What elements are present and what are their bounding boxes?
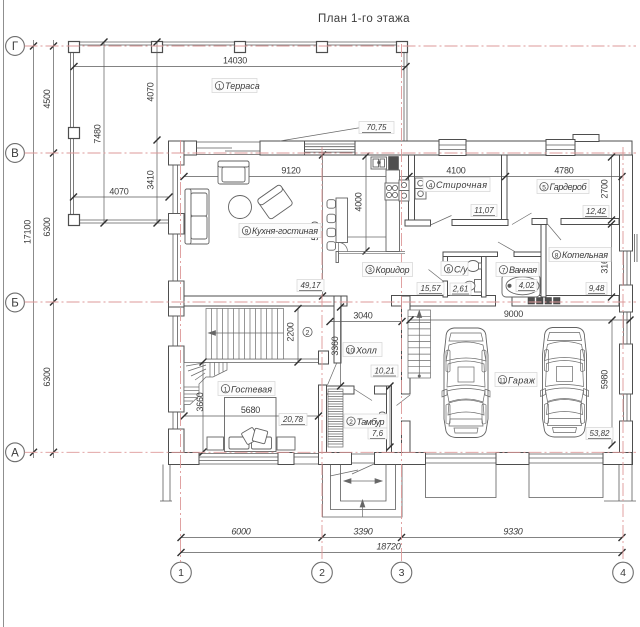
svg-text:Холл: Холл — [355, 346, 377, 356]
area 53.82 — [586, 428, 613, 440]
wall boiler west — [541, 225, 546, 298]
label Терраса — [212, 79, 260, 93]
svg-text:10: 10 — [347, 347, 355, 354]
area 20.78 — [279, 414, 307, 426]
svg-text:Тамбур: Тамбур — [357, 417, 385, 427]
dim 3360 hall west — [330, 304, 344, 390]
svg-text:Гараж: Гараж — [508, 376, 536, 386]
svg-text:9120: 9120 — [281, 166, 300, 176]
svg-text:7,6: 7,6 — [372, 429, 384, 438]
bath tub — [502, 275, 540, 298]
exterior left wall segments — [169, 141, 185, 165]
guest room top furniture line — [228, 398, 393, 400]
wall guest north (under stair) — [206, 359, 319, 363]
porch nested steps — [323, 465, 403, 518]
svg-text:Б: Б — [11, 298, 19, 310]
terrace dim 7480 — [93, 39, 108, 227]
terrace bottom wall — [70, 220, 169, 223]
left wall foot pier — [160, 465, 172, 502]
svg-text:12,42: 12,42 — [586, 207, 607, 216]
wc toilet — [464, 280, 482, 293]
garage door 2 opening — [529, 454, 603, 463]
window living west 2 — [169, 234, 185, 281]
svg-text:1: 1 — [178, 567, 184, 579]
dim 2500 tambour — [378, 383, 394, 451]
axis circle Б — [6, 293, 25, 312]
kitchen island — [336, 198, 348, 243]
area 70.75 — [359, 122, 394, 134]
svg-text:20,78: 20,78 — [282, 415, 304, 424]
left page edge line — [3, 0, 5, 627]
label Ванная — [496, 263, 539, 277]
axis circle В — [6, 144, 25, 163]
stair tag circle 2 — [303, 327, 312, 336]
window guest south 2 — [294, 454, 319, 465]
svg-text:3660: 3660 — [195, 392, 205, 411]
svg-text:Коридор: Коридор — [376, 265, 410, 275]
svg-text:Котельная: Котельная — [562, 250, 608, 260]
window guest south — [199, 454, 278, 465]
terrace dim 4070 / 3410 vertical — [146, 39, 161, 227]
dim 5980 kitchen — [310, 152, 326, 300]
svg-text:3040: 3040 — [353, 311, 372, 321]
area 9.48 — [586, 283, 607, 295]
svg-text:Стирочная: Стирочная — [436, 180, 487, 190]
entry door leaf — [352, 464, 374, 474]
area 49.17 — [297, 280, 324, 292]
sofa living room — [185, 189, 209, 244]
window living west 1 — [169, 165, 185, 214]
left total dim line (17100) — [23, 40, 38, 458]
red axis line 4 — [622, 147, 624, 562]
terrace sliding door opening — [197, 142, 261, 155]
car 2 — [541, 328, 589, 438]
red axis line 3 — [401, 44, 403, 562]
svg-text:4000: 4000 — [354, 192, 364, 211]
laundry washers — [415, 178, 426, 199]
wall tambour west (guest east) — [319, 385, 327, 453]
svg-text:План 1-го этажа: План 1-го этажа — [318, 13, 410, 25]
axis circle 1 — [171, 562, 192, 583]
svg-text:9000: 9000 — [504, 309, 523, 319]
svg-text:7480: 7480 — [93, 124, 103, 143]
label Тамбур — [344, 414, 387, 428]
tambour closet hatch — [328, 389, 343, 447]
label Гостевая — [218, 382, 275, 396]
interior dim line 9120/4100/4780 — [181, 166, 626, 181]
svg-text:7: 7 — [502, 267, 506, 274]
garage door to house opening — [402, 394, 410, 421]
svg-text:2700: 2700 — [600, 179, 610, 198]
svg-text:3390: 3390 — [353, 527, 372, 537]
svg-text:3: 3 — [399, 567, 405, 579]
boiler door leaf — [548, 224, 562, 240]
label С/у — [441, 262, 468, 276]
dim 9000 garage — [407, 309, 634, 324]
axis circle А — [6, 443, 25, 462]
svg-text:4,02: 4,02 — [519, 281, 535, 290]
bath door leaf — [498, 242, 516, 252]
dim 3160 boiler — [600, 221, 616, 301]
svg-text:1: 1 — [224, 386, 228, 393]
svg-text:Терраса: Терраса — [225, 81, 260, 91]
kitchen counter right — [386, 170, 400, 252]
window garage right lower — [620, 394, 633, 421]
island leg — [336, 252, 339, 263]
svg-text:Г: Г — [12, 41, 19, 53]
svg-text:4070: 4070 — [109, 187, 128, 197]
svg-text:53,82: 53,82 — [589, 429, 610, 438]
garage shelf squares — [528, 298, 535, 305]
garage west door leaf — [397, 395, 411, 406]
guest bed cushions and nightstands — [207, 427, 295, 450]
label Гардероб — [537, 180, 589, 194]
exterior top wall segments — [169, 141, 197, 155]
svg-text:18720: 18720 — [376, 542, 400, 552]
red axis line В — [25, 152, 637, 154]
svg-text:4780: 4780 — [554, 166, 573, 176]
svg-text:Гостевая: Гостевая — [231, 385, 272, 395]
svg-text:15,57: 15,57 — [420, 284, 441, 293]
porch arrows — [344, 479, 382, 517]
winder steps — [184, 363, 227, 405]
svg-text:17100: 17100 — [23, 220, 33, 244]
red axis line 1 — [180, 140, 182, 562]
svg-text:9: 9 — [245, 228, 249, 235]
svg-text:С/у: С/у — [454, 265, 468, 275]
vent box hall — [319, 351, 329, 364]
red axis line Б — [25, 301, 637, 303]
svg-text:6000: 6000 — [231, 527, 250, 537]
kitchen bottom counter edge — [336, 237, 405, 254]
svg-text:4: 4 — [429, 182, 433, 189]
axis circle 2 — [312, 562, 333, 583]
guest bed — [225, 398, 277, 452]
garage door 1 opening — [426, 454, 497, 463]
svg-text:Кухня-гостиная: Кухня-гостиная — [252, 226, 318, 236]
terrace dim 14030 — [71, 56, 410, 71]
svg-text:4: 4 — [620, 567, 626, 579]
svg-text:Ванная: Ванная — [509, 265, 537, 275]
svg-text:В: В — [11, 148, 19, 160]
svg-text:3360: 3360 — [330, 336, 340, 355]
svg-text:5: 5 — [542, 184, 546, 191]
svg-text:5980: 5980 — [600, 370, 610, 389]
terrace lower dim 4070 — [70, 187, 173, 201]
wall garage west — [402, 296, 411, 394]
roof jut top right — [573, 135, 599, 142]
svg-text:А: А — [11, 447, 19, 459]
wall under laundry and wardrobe — [405, 220, 431, 226]
wall kitchen/laundry divider — [409, 155, 415, 221]
dim 3660 guest — [195, 359, 207, 456]
wc washbasin — [467, 261, 482, 272]
red axis line 2 — [321, 147, 323, 562]
label Котельная — [549, 248, 611, 262]
terrace right wall — [404, 42, 407, 141]
kitchen cabinets column — [399, 180, 409, 201]
garage driveway apron 1 — [426, 465, 497, 498]
wall tambour north — [327, 386, 355, 394]
dim 4000 kitchen — [354, 153, 370, 255]
svg-text:2: 2 — [349, 419, 353, 426]
wall tambour east — [387, 386, 392, 453]
island chairs — [327, 200, 336, 251]
dim 5680 guest — [181, 405, 323, 420]
round table — [229, 196, 252, 219]
dim 2200 stair — [286, 305, 302, 366]
leader line to 70.75 — [280, 128, 361, 142]
wc door leaf — [429, 270, 444, 282]
exterior right wall — [620, 155, 633, 251]
window garage right upper — [620, 312, 633, 344]
area 4.02 — [516, 280, 537, 292]
garage driveway apron 2 — [529, 465, 603, 498]
area 11.07 — [471, 205, 497, 217]
wall wc/bath divider — [482, 257, 487, 298]
laundry door leaf — [431, 216, 452, 226]
svg-text:4500: 4500 — [42, 89, 52, 108]
kitchen fridge dark — [389, 157, 399, 171]
svg-text:2200: 2200 — [286, 322, 296, 341]
svg-text:49,17: 49,17 — [300, 281, 321, 290]
red axis line А — [25, 451, 637, 453]
exterior bottom wall segments — [169, 453, 200, 465]
area 15.57 — [417, 283, 444, 295]
window laundry top — [439, 140, 466, 156]
interior wall middle (south of corridor) — [184, 296, 347, 306]
svg-text:70,75: 70,75 — [366, 123, 387, 132]
svg-text:3: 3 — [368, 267, 372, 274]
wall wc/bath north — [443, 252, 498, 257]
tambour door leaf — [354, 389, 372, 401]
garage staircase — [408, 310, 431, 378]
armchair living room — [218, 161, 249, 184]
axis circle Г — [6, 37, 25, 56]
label Гараж — [495, 373, 537, 387]
svg-text:10,21: 10,21 — [374, 367, 394, 376]
svg-text:2: 2 — [319, 567, 325, 579]
window wardrobe top — [546, 140, 575, 156]
area 12.42 — [583, 206, 609, 218]
window boiler right — [620, 234, 638, 285]
svg-text:6300: 6300 — [42, 367, 52, 386]
svg-text:8: 8 — [555, 252, 559, 259]
label Холл — [343, 343, 382, 357]
kitchen door arc — [339, 243, 348, 252]
svg-text:5680: 5680 — [241, 405, 260, 415]
svg-text:4070: 4070 — [146, 82, 156, 101]
window kitchen top — [305, 141, 356, 155]
label Стирочная — [423, 178, 490, 192]
entry door opening — [352, 454, 375, 463]
dim 5980 garage — [600, 317, 616, 449]
right wall foot extension — [604, 465, 636, 502]
label Кухня-гостиная — [239, 224, 321, 238]
left dim chain line (4500/6300/6300) — [42, 40, 57, 458]
svg-text:14030: 14030 — [223, 56, 247, 66]
bottom chain dim 6000/3390/9330 — [178, 527, 626, 542]
area 2.61 — [450, 283, 471, 295]
area 7.6 — [368, 428, 387, 439]
guest room door leaf — [328, 364, 337, 386]
kitchen stove — [385, 183, 399, 200]
svg-text:11,07: 11,07 — [474, 206, 494, 215]
svg-text:6: 6 — [447, 266, 451, 273]
axis circle 4 — [613, 562, 634, 583]
svg-text:11: 11 — [499, 377, 506, 384]
wall stair east (hall west) — [334, 296, 341, 363]
label Коридор — [363, 263, 413, 277]
svg-text:2,61: 2,61 — [452, 285, 469, 294]
svg-text:1: 1 — [218, 83, 222, 90]
kitchen sink unit — [371, 157, 387, 169]
car 1 — [442, 328, 490, 438]
svg-text:6300: 6300 — [42, 217, 52, 236]
terrace columns — [69, 42, 80, 53]
wall laundry/wardrobe divider — [502, 155, 508, 221]
terrace left wall — [71, 42, 74, 223]
svg-text:4100: 4100 — [446, 166, 465, 176]
svg-text:9330: 9330 — [503, 527, 522, 537]
svg-text:3410: 3410 — [146, 170, 156, 189]
porch leader line — [330, 470, 358, 476]
wall wc west — [443, 257, 448, 268]
rotated chair — [257, 184, 294, 220]
area 10.21 — [371, 365, 398, 377]
dim 2700 wardrobe — [600, 154, 616, 224]
window guest west — [169, 412, 185, 429]
terrace top wall — [70, 42, 406, 45]
svg-text:2: 2 — [306, 330, 310, 337]
wardrobe door leaf — [512, 213, 532, 225]
red axis line Г — [25, 45, 637, 47]
svg-text:9,48: 9,48 — [589, 284, 605, 293]
window stair west — [169, 316, 185, 346]
dim 3040 hall — [327, 311, 406, 326]
main staircase — [206, 309, 284, 360]
bottom total dim 18720 — [178, 542, 626, 557]
axis circle 3 — [391, 562, 412, 583]
svg-text:Гардероб: Гардероб — [550, 182, 588, 192]
